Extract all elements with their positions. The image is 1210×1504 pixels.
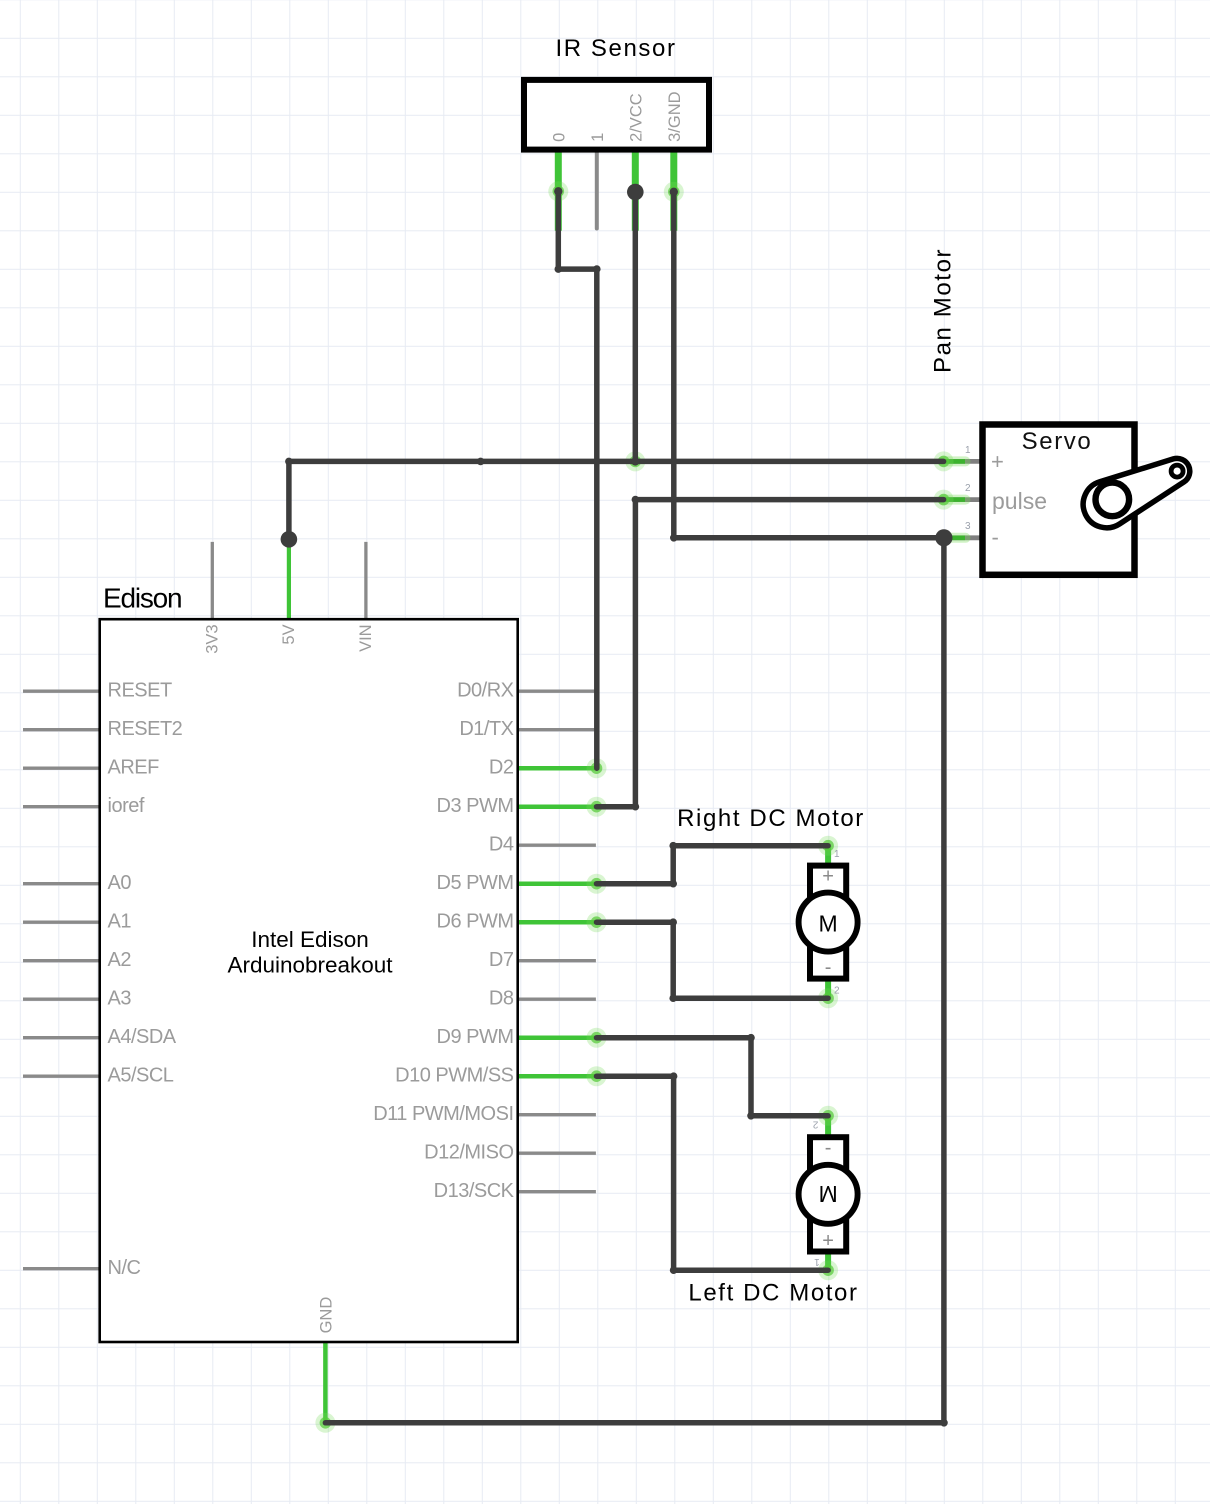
svg-text:1: 1 <box>834 849 840 860</box>
svg-text:D10 PWM/SS: D10 PWM/SS <box>395 1065 514 1087</box>
connection glow at (596,807) <box>587 797 607 817</box>
Edison pin leg ioref <box>23 805 99 808</box>
Edison pin leg D10 PWM/SS <box>518 1074 597 1079</box>
svg-text:A0: A0 <box>108 872 132 894</box>
svg-text:D6 PWM: D6 PWM <box>437 911 514 933</box>
svg-text:Left DC Motor: Left DC Motor <box>688 1279 858 1306</box>
Edison pin leg AREF <box>23 767 99 770</box>
svg-text:N/C: N/C <box>108 1257 141 1279</box>
svg-text:D13/SCK: D13/SCK <box>434 1180 515 1202</box>
svg-text:GND: GND <box>317 1297 335 1334</box>
svg-text:Arduinobreakout: Arduinobreakout <box>227 952 393 977</box>
svg-text:2/VCC: 2/VCC <box>627 93 645 142</box>
svg-text:Intel Edison: Intel Edison <box>251 927 369 952</box>
junction dot 5V <box>281 531 298 548</box>
IR sensor pin 0 leg <box>555 152 562 231</box>
wire IR-0 to D2 <box>558 191 597 768</box>
Edison pin leg D13/SCK <box>518 1190 596 1193</box>
IR sensor pin 1 leg (n/c) <box>595 152 599 229</box>
svg-text:D2: D2 <box>489 757 514 779</box>
Edison pin leg D8 <box>518 998 596 1001</box>
svg-text:D1/TX: D1/TX <box>459 718 513 740</box>
svg-text:M: M <box>819 910 838 936</box>
svg-text:+: + <box>822 1230 834 1252</box>
svg-text:A3: A3 <box>108 988 132 1010</box>
svg-text:+: + <box>822 866 834 888</box>
Edison pin leg A2 <box>23 959 99 962</box>
Edison pin leg D6 PWM <box>518 920 597 925</box>
connection glow at (828,1116) <box>818 1106 838 1126</box>
junction dot servo minus <box>935 529 952 546</box>
Edison pin leg D12/MISO <box>518 1152 596 1155</box>
svg-text:RESET: RESET <box>108 680 172 702</box>
servo horn icon <box>1083 458 1190 527</box>
connection glow at (596,1038) <box>587 1028 607 1048</box>
svg-text:1: 1 <box>965 445 971 456</box>
svg-text:Servo: Servo <box>1022 428 1093 455</box>
svg-text:AREF: AREF <box>108 757 160 779</box>
wire servo - to Edison GND <box>325 538 944 1423</box>
svg-text:D9 PWM: D9 PWM <box>437 1026 514 1048</box>
svg-text:-: - <box>825 957 832 979</box>
svg-text:pulse: pulse <box>992 488 1047 514</box>
svg-text:D0/RX: D0/RX <box>457 680 514 702</box>
Edison pin leg A0 <box>23 882 99 885</box>
wire bend point dots <box>555 265 563 273</box>
svg-text:D7: D7 <box>489 949 514 971</box>
connection glow at (596,922) <box>587 912 607 932</box>
servo pin leg 1 + <box>943 459 980 464</box>
connection glow at (944,500) <box>934 490 954 510</box>
svg-text:Right DC Motor: Right DC Motor <box>677 805 865 832</box>
svg-text:+: + <box>991 449 1004 474</box>
svg-text:3/GND: 3/GND <box>666 91 684 142</box>
svg-text:1: 1 <box>814 1256 820 1267</box>
Edison pin leg D0/RX <box>518 690 596 693</box>
right motor pin legs <box>825 846 831 864</box>
Edison 5V pin leg <box>287 545 291 619</box>
Edison pin leg A3 <box>23 998 99 1001</box>
svg-text:ioref: ioref <box>108 795 145 817</box>
junction dot IR 2/VCC <box>627 184 644 201</box>
wire D9 PWM to left motor pin2 <box>597 1038 829 1116</box>
svg-text:D12/MISO: D12/MISO <box>424 1142 513 1164</box>
Edison VIN pin leg <box>364 542 367 619</box>
svg-text:2: 2 <box>965 483 971 494</box>
connection glow at (944,461) <box>934 451 954 471</box>
svg-text:0: 0 <box>550 133 568 142</box>
svg-text:1: 1 <box>589 133 607 142</box>
wire 5V to servo + <box>289 461 944 539</box>
Edison pin leg D11 PWM/MOSI <box>518 1113 596 1116</box>
svg-text:-: - <box>992 525 999 550</box>
svg-text:Pan Motor: Pan Motor <box>930 248 957 373</box>
connection glow at (635,461) <box>625 451 645 471</box>
svg-text:IR Sensor: IR Sensor <box>555 35 676 62</box>
Edison pin leg A5/SCL <box>23 1075 99 1078</box>
svg-text:A4/SDA: A4/SDA <box>108 1026 177 1048</box>
Edison GND pin leg <box>323 1342 328 1423</box>
svg-text:RESET2: RESET2 <box>108 718 183 740</box>
connection glow at (674,192) <box>664 182 684 202</box>
svg-text:VIN: VIN <box>357 624 375 652</box>
wire D3 PWM to servo pulse <box>597 500 944 807</box>
left motor pin legs <box>825 1116 831 1136</box>
IR Sensor box <box>524 80 709 150</box>
Edison pin leg A4/SDA <box>23 1036 99 1039</box>
Edison pin leg D1/TX <box>518 728 596 731</box>
svg-text:2: 2 <box>812 1119 818 1130</box>
svg-text:3: 3 <box>965 521 971 532</box>
svg-text:A5/SCL: A5/SCL <box>108 1065 174 1087</box>
connection glow at (828,1270) <box>818 1260 838 1280</box>
Edison pin leg D2 <box>518 766 597 771</box>
connection glow at (828,846) <box>818 836 838 856</box>
wire D5 PWM to right motor pin1 <box>597 846 829 884</box>
left motor M2 body <box>810 1137 846 1251</box>
Edison pin leg N/C <box>23 1267 99 1270</box>
svg-text:Edison: Edison <box>103 583 181 614</box>
wire D10 PWM/SS to left motor pin1 <box>597 1076 829 1270</box>
servo pin leg 2 pulse <box>943 497 980 502</box>
svg-text:D8: D8 <box>489 988 514 1010</box>
connection glow at (325,1423) <box>315 1413 335 1433</box>
svg-text:D3 PWM: D3 PWM <box>437 795 514 817</box>
Edison (Intel Edison Arduino breakout) box <box>100 619 518 1342</box>
Edison pin leg D3 PWM <box>518 804 597 809</box>
svg-text:D4: D4 <box>489 834 514 856</box>
svg-text:A1: A1 <box>108 911 132 933</box>
svg-text:2: 2 <box>834 986 840 997</box>
Edison 3V3 pin leg <box>211 542 214 619</box>
connection glow at (596,768) <box>587 758 607 778</box>
right motor M1 body <box>810 866 846 979</box>
svg-text:-: - <box>825 1137 832 1159</box>
IR sensor pin 2/VCC leg <box>632 152 639 231</box>
servo pin leg 3 - <box>943 535 980 540</box>
Edison pin leg D9 PWM <box>518 1035 597 1040</box>
Edison pin leg D4 <box>518 844 596 847</box>
Edison pin leg RESET2 <box>23 728 99 731</box>
Edison pin leg D7 <box>518 959 596 962</box>
Edison pin leg A1 <box>23 921 99 924</box>
wire IR-3/GND to servo - <box>674 192 944 538</box>
IR sensor pin 3/GND leg <box>670 152 677 231</box>
svg-text:M: M <box>819 1181 838 1207</box>
svg-text:D5 PWM: D5 PWM <box>437 872 514 894</box>
svg-text:5V: 5V <box>280 624 298 644</box>
Edison pin leg D5 PWM <box>518 881 597 886</box>
connection glow at (828,998) <box>818 988 838 1008</box>
svg-text:A2: A2 <box>108 949 132 971</box>
connection glow at (596,1076) <box>587 1066 607 1086</box>
svg-text:3V3: 3V3 <box>203 624 221 653</box>
Edison pin leg RESET <box>23 690 99 693</box>
connection glow at (558,191) <box>548 181 568 201</box>
svg-text:D11 PWM/MOSI: D11 PWM/MOSI <box>373 1103 513 1125</box>
wire D6 PWM to right motor pin2 <box>597 922 829 998</box>
wire IR-2/VCC down to 5V rail <box>633 192 639 461</box>
connection glow at (596,884) <box>587 874 607 894</box>
Servo box <box>983 425 1135 575</box>
